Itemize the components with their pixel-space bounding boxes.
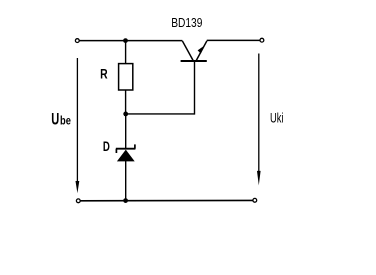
svg-text:Uki: Uki [270,110,284,125]
svg-text:be: be [60,113,71,127]
svg-text:D: D [103,139,110,155]
svg-text:U: U [51,109,59,128]
svg-text:BD139: BD139 [171,16,202,30]
svg-text:R: R [100,66,108,82]
